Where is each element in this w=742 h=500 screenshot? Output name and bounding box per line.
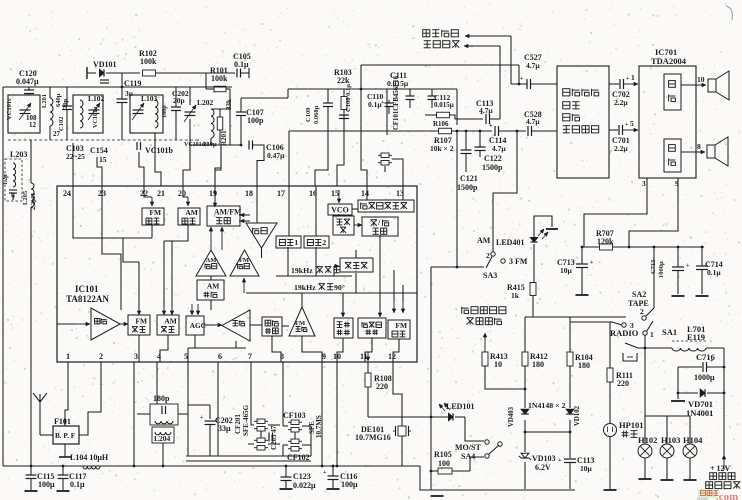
svg-text:18: 18 — [245, 189, 253, 198]
svg-text:F101: F101 — [54, 417, 71, 426]
svg-text:4.7μ: 4.7μ — [492, 144, 506, 153]
svg-text:L203: L203 — [10, 150, 27, 159]
svg-text:FM: FM — [395, 321, 407, 330]
svg-text:8: 8 — [697, 142, 701, 151]
svg-text:AM: AM — [206, 257, 217, 264]
svg-text:+ 12V: + 12V — [710, 464, 731, 473]
svg-text:100k: 100k — [211, 74, 228, 83]
svg-text:L104 10μH: L104 10μH — [70, 453, 109, 462]
svg-text:AM: AM — [164, 317, 177, 326]
svg-text:C203 47: C203 47 — [270, 425, 278, 450]
svg-text:9: 9 — [322, 352, 326, 361]
svg-text:1k: 1k — [511, 291, 520, 300]
svg-text:0.047μ: 0.047μ — [16, 77, 39, 86]
svg-text:33k: 33k — [225, 99, 233, 110]
svg-text:90°: 90° — [334, 283, 345, 292]
svg-text:1000μ: 1000μ — [694, 373, 715, 382]
svg-text:LED401: LED401 — [496, 238, 524, 247]
svg-text:1.2μ: 1.2μ — [3, 174, 9, 185]
svg-text:15: 15 — [331, 189, 339, 198]
svg-text:22k: 22k — [337, 76, 350, 85]
svg-text:3p: 3p — [125, 89, 133, 98]
svg-text:E119: E119 — [687, 332, 705, 342]
svg-text:100p: 100p — [247, 116, 264, 125]
svg-text:L103: L103 — [141, 94, 158, 103]
svg-text:0.022μ: 0.022μ — [293, 481, 316, 490]
svg-text:20p: 20p — [173, 96, 185, 105]
svg-text:2: 2 — [322, 238, 326, 247]
svg-text:C108 0.1μ: C108 0.1μ — [345, 84, 352, 112]
svg-text:7: 7 — [248, 352, 252, 361]
svg-text:1N4001: 1N4001 — [686, 408, 713, 418]
svg-text:C102: C102 — [58, 117, 65, 131]
svg-text:180p: 180p — [153, 394, 170, 403]
svg-text:C716: C716 — [696, 352, 715, 362]
svg-text:HP101: HP101 — [619, 420, 644, 430]
svg-text:/: / — [377, 218, 381, 227]
svg-text:100: 100 — [438, 459, 450, 468]
svg-text:SA3: SA3 — [483, 271, 497, 280]
svg-text:24: 24 — [63, 189, 71, 198]
svg-text:FM: FM — [135, 317, 147, 326]
svg-text:280μ: 280μ — [203, 141, 217, 148]
svg-text:L201: L201 — [41, 94, 48, 108]
svg-text:IC101: IC101 — [75, 284, 99, 294]
svg-text:+: + — [590, 260, 594, 266]
svg-text:C154: C154 — [90, 146, 108, 155]
svg-text:11: 11 — [360, 352, 368, 361]
svg-text:100μ: 100μ — [38, 480, 55, 489]
svg-text:5: 5 — [184, 352, 188, 361]
svg-text:21: 21 — [157, 189, 165, 198]
svg-text:VD102: VD102 — [574, 405, 581, 426]
svg-text:100k: 100k — [140, 57, 157, 66]
svg-text:100μ: 100μ — [341, 480, 358, 489]
svg-text:SA2: SA2 — [632, 290, 646, 299]
svg-text:L202: L202 — [197, 98, 214, 107]
svg-text:+: + — [626, 76, 630, 82]
svg-text:14: 14 — [361, 189, 369, 198]
svg-text:1: 1 — [66, 352, 70, 361]
svg-text:180: 180 — [532, 360, 544, 369]
svg-text:C119: C119 — [124, 79, 141, 88]
svg-text:TDA2004: TDA2004 — [651, 56, 687, 66]
svg-text:0.1μ: 0.1μ — [70, 480, 85, 489]
svg-text:CF103: CF103 — [283, 411, 306, 420]
svg-text:10.7MG16: 10.7MG16 — [355, 433, 391, 442]
svg-text:+: + — [558, 457, 562, 464]
svg-text:C123: C123 — [293, 472, 311, 481]
svg-text:+: + — [520, 76, 524, 82]
svg-text:1: 1 — [294, 238, 298, 247]
svg-text:1: 1 — [650, 330, 654, 339]
svg-text:12: 12 — [29, 121, 37, 129]
svg-text:0.47μ: 0.47μ — [267, 151, 285, 160]
svg-text:10: 10 — [697, 75, 705, 84]
svg-text:4.7μ: 4.7μ — [526, 117, 540, 126]
svg-text:jiexian: jiexian — [696, 496, 708, 500]
svg-text:R201: R201 — [220, 130, 228, 146]
svg-text:6.2V: 6.2V — [535, 463, 551, 472]
svg-text:5: 5 — [630, 119, 634, 128]
svg-text:AM: AM — [207, 282, 220, 291]
svg-text:10μ: 10μ — [560, 266, 573, 275]
svg-text:SA1: SA1 — [662, 327, 677, 337]
svg-text:2: 2 — [486, 251, 490, 260]
svg-text:2: 2 — [99, 352, 103, 361]
svg-text:CF102: CF102 — [287, 453, 310, 462]
svg-text:220: 220 — [376, 382, 388, 391]
svg-text:VD103: VD103 — [532, 454, 556, 463]
svg-text:+: + — [381, 100, 385, 106]
svg-text:+: + — [489, 123, 493, 129]
svg-text:3: 3 — [134, 352, 138, 361]
svg-text:19kHz: 19kHz — [294, 283, 316, 292]
svg-text:100p: 100p — [161, 105, 168, 118]
svg-text:+: + — [625, 122, 629, 128]
svg-text:1500p: 1500p — [457, 183, 478, 192]
svg-text:SFE-465G: SFE-465G — [242, 404, 250, 436]
svg-text:0.068μ: 0.068μ — [313, 105, 320, 124]
svg-text:VD101: VD101 — [93, 60, 117, 69]
svg-text:L204: L204 — [154, 434, 171, 443]
svg-text:17: 17 — [277, 189, 285, 198]
svg-text:4.7μ: 4.7μ — [526, 61, 540, 70]
svg-text:H102: H102 — [638, 435, 657, 445]
svg-text:19kHz: 19kHz — [291, 266, 313, 275]
svg-text:.com: .com — [716, 491, 738, 500]
svg-text:27: 27 — [53, 130, 61, 138]
svg-text:H104: H104 — [683, 435, 703, 445]
svg-text:4.7μ: 4.7μ — [479, 106, 493, 115]
svg-text:0.1μ: 0.1μ — [707, 268, 721, 277]
svg-text:MO/ST: MO/ST — [455, 443, 481, 452]
svg-text:120k: 120k — [597, 237, 614, 246]
svg-text:H103: H103 — [661, 435, 680, 445]
svg-text:VD403: VD403 — [508, 406, 515, 427]
svg-text:B. P. F: B. P. F — [55, 432, 76, 440]
svg-text:L205: L205 — [22, 190, 29, 205]
svg-text:+: + — [200, 415, 204, 421]
svg-text:AGC: AGC — [190, 321, 206, 330]
svg-text:VCO: VCO — [331, 206, 349, 215]
svg-text:+: + — [686, 263, 690, 269]
svg-text:+: + — [323, 470, 327, 476]
svg-text:AM/FM: AM/FM — [214, 208, 242, 217]
svg-text:FM: FM — [295, 320, 305, 327]
svg-text:TA8122AN: TA8122AN — [66, 294, 109, 304]
svg-text:3 FM: 3 FM — [509, 257, 528, 266]
svg-text:6: 6 — [218, 352, 222, 361]
svg-text:19: 19 — [209, 189, 217, 198]
svg-text:180: 180 — [578, 361, 590, 370]
svg-text:220: 220 — [617, 379, 629, 388]
svg-text:1500p: 1500p — [482, 163, 503, 172]
svg-text:47: 47 — [11, 192, 17, 198]
svg-text:3: 3 — [642, 179, 646, 188]
svg-text:1: 1 — [631, 73, 635, 82]
svg-text:R106: R106 — [433, 120, 449, 128]
svg-text:L102: L102 — [88, 94, 105, 103]
svg-text:FM: FM — [239, 257, 249, 264]
svg-text:640μ: 640μ — [55, 93, 62, 107]
svg-text:VC101c: VC101c — [6, 98, 13, 120]
svg-text:AM: AM — [185, 208, 198, 217]
svg-text:20p: 20p — [62, 99, 69, 110]
svg-text:CF101CFB456F16: CF101CFB456F16 — [393, 75, 400, 130]
svg-text:10k × 2: 10k × 2 — [430, 144, 454, 153]
svg-text:1N4148 × 2: 1N4148 × 2 — [528, 401, 565, 410]
svg-text:VC101a: VC101a — [92, 107, 99, 128]
svg-text:AM: AM — [477, 236, 491, 245]
svg-text:2.2μ: 2.2μ — [614, 98, 628, 107]
svg-text:2.2μ: 2.2μ — [614, 144, 628, 153]
svg-text:0.015μ: 0.015μ — [434, 101, 454, 109]
svg-text:10: 10 — [494, 360, 502, 369]
svg-text:1000μ: 1000μ — [658, 261, 665, 278]
svg-text:0.1μ: 0.1μ — [234, 60, 249, 69]
svg-text:2: 2 — [640, 307, 644, 316]
svg-text:15: 15 — [99, 155, 107, 164]
svg-text:CF201: CF201 — [234, 414, 242, 434]
svg-text:10μ: 10μ — [580, 464, 593, 473]
svg-text:R105: R105 — [434, 450, 452, 459]
svg-text:2.2μH: 2.2μH — [30, 193, 37, 210]
svg-text:C121: C121 — [460, 174, 478, 183]
svg-text:C122: C122 — [484, 154, 502, 163]
svg-text:LED101: LED101 — [446, 402, 474, 411]
svg-text:22~25: 22~25 — [66, 152, 85, 161]
svg-text:12: 12 — [388, 352, 396, 361]
svg-text:FM: FM — [149, 208, 161, 217]
svg-text:RADIO: RADIO — [610, 328, 639, 338]
svg-text:TAPE: TAPE — [628, 299, 649, 308]
svg-text:33μ: 33μ — [218, 424, 231, 433]
svg-text:VC101b: VC101b — [145, 146, 174, 155]
svg-text:C109: C109 — [305, 107, 312, 122]
